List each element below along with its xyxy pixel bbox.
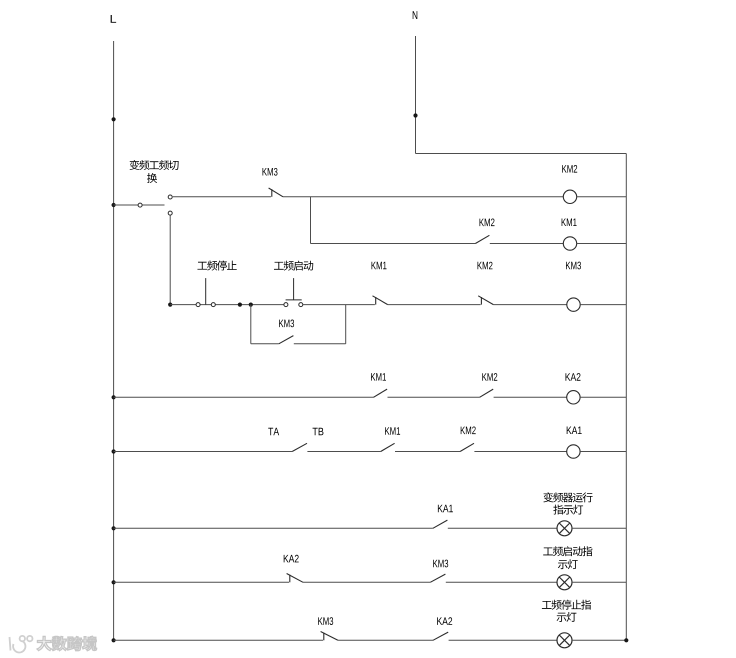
watermark 大数跨境: [37, 636, 96, 650]
contact KA2 NO (rung8): [433, 632, 448, 640]
contact KA2 NC (rung7): [287, 574, 303, 583]
coil KA2: [567, 391, 580, 404]
contact KM3 NC (rung8): [321, 632, 338, 641]
junction L bus to selector: [112, 203, 116, 207]
selector SA pivot: [138, 203, 142, 207]
label N: [413, 11, 418, 19]
wire: rung4 seg b: [388, 396, 480, 398]
wire: rung8 seg d: [572, 639, 626, 641]
wire: rung5 seg d: [474, 451, 566, 453]
contact TA-TB NO (rung5): [292, 443, 307, 451]
junction L bus rung4: [112, 395, 116, 399]
contact KM3 NO (self-hold): [279, 336, 294, 344]
wire: rung2 seg c: [577, 243, 627, 245]
label KA2 (rung7): [284, 555, 299, 563]
label TB: [313, 428, 324, 435]
wire: rung1 seg a: [173, 196, 271, 198]
wire: rung5 seg a: [114, 451, 293, 453]
label KM1 (rung3): [371, 262, 386, 269]
label KA2 (rung8): [437, 617, 452, 625]
wire: rung8 seg a: [114, 639, 323, 641]
label KM2 (rung5): [461, 426, 476, 434]
wire: self-hold seg b: [294, 343, 346, 345]
wire: rung4 seg c: [494, 396, 567, 398]
pushbutton SB2 terminal right: [299, 303, 303, 307]
wire: selector common + blade: [114, 204, 165, 206]
label KM2 (rung3): [477, 262, 492, 270]
wire: rung6 seg b: [448, 527, 557, 529]
label KM2 (rung4): [482, 373, 497, 381]
wire: rung1-rung2 branch: [310, 197, 312, 244]
wire: rung7 seg a: [114, 581, 289, 583]
contact KM3 NO (rung7): [430, 574, 445, 582]
junction on L bus: [112, 117, 116, 121]
pushbutton SB2 工频启动 (NO) actuator: [286, 278, 302, 300]
wire: rung3 seg d: [493, 304, 566, 306]
wire: N bus (right): [625, 154, 627, 641]
coil KM1: [563, 237, 576, 250]
wire: L bus: [113, 41, 115, 640]
label KM3 (rung1): [262, 168, 277, 176]
junction rung3 left: [168, 303, 172, 307]
wire: self-hold branch down: [250, 305, 252, 344]
label 指示灯 (rung6): [553, 505, 583, 515]
wire: rung1 seg c: [577, 196, 627, 198]
contact KM3 NC (rung1): [269, 188, 283, 197]
wire: rung5 seg c: [395, 451, 460, 453]
junction on N drop: [413, 113, 417, 117]
label KA1 (rung6): [438, 505, 453, 512]
junction L bus rung5: [112, 449, 116, 453]
lamp HL2 工频启动指示灯: [557, 575, 572, 590]
label TA: [268, 428, 279, 435]
coil KM2: [563, 190, 576, 203]
pushbutton SB1 工频停止 (NC) actuator: [205, 278, 207, 305]
wire: rung8 seg c: [449, 639, 557, 641]
label KM1 (rung5): [385, 427, 400, 434]
wire: rung3 seg c: [388, 304, 481, 306]
wire: rung4 seg d: [580, 396, 626, 398]
wire: rung3 seg b: [303, 304, 375, 306]
wire: rung8 seg b: [338, 639, 433, 641]
label KM2 (rung2): [479, 218, 494, 226]
wire: rung2 seg a: [311, 243, 476, 245]
contact KM1 NO (rung5): [381, 443, 395, 451]
selector SA throw 2 (down): [168, 211, 172, 215]
label KA1 coil: [567, 427, 582, 434]
label 示灯 (rung8): [557, 612, 577, 622]
wire: self-hold seg a: [251, 343, 279, 345]
wire: rung3 seg a: [170, 304, 286, 306]
pushbutton SB2 terminal left: [284, 303, 288, 307]
label KM1 (rung4): [371, 373, 386, 380]
label 变频工频切换 line1: [130, 160, 179, 170]
selector SA throw 1 (up): [168, 195, 172, 199]
label KM3 (rung7): [433, 560, 448, 568]
contact KM2 NC (rung3): [478, 296, 493, 305]
wire: rung6 seg c: [572, 527, 626, 529]
label L: [111, 15, 117, 23]
contact KM2 NO (rung4): [480, 389, 494, 397]
label 工频启动: [274, 261, 313, 271]
pushbutton SB1 terminal left: [196, 303, 200, 307]
watermark logo: [10, 636, 33, 653]
contact KM2 NO (rung5): [460, 443, 474, 451]
label KA2 coil: [566, 373, 581, 381]
label KM3 (rung8): [318, 617, 333, 625]
wire: N drop: [415, 36, 417, 154]
coil KA1: [567, 445, 580, 458]
junction rung3 a: [238, 303, 242, 307]
lamp HL1 变频器运行指示灯: [557, 521, 572, 536]
label KM2 coil: [562, 165, 577, 173]
junction L bus rung7: [112, 580, 116, 584]
wire: rung1 seg b: [283, 196, 563, 198]
wire: rung4 seg a: [114, 396, 374, 398]
label 变频工频切换 line2: [147, 173, 157, 183]
contact KA1 NO (rung6): [433, 520, 448, 528]
wire: rung3 seg e: [580, 304, 626, 306]
junction right bus bottom: [624, 638, 628, 642]
wire: self-hold branch up: [345, 305, 347, 344]
label KM3 (self-hold): [279, 320, 294, 328]
junction L bus rung6: [112, 526, 116, 530]
label 工频停止: [197, 260, 236, 270]
wire: rung7 seg d: [572, 581, 626, 583]
lamp HL3 工频停止指示灯: [557, 633, 572, 648]
contact KM1 NC (rung3): [373, 296, 388, 305]
label 工频停止指: [542, 600, 591, 610]
coil KM3: [567, 298, 580, 311]
contact KM2 NO (rung2): [475, 235, 489, 243]
label 工频启动指: [543, 546, 592, 556]
wire: rung7 seg c: [446, 581, 557, 583]
wire: rung2 seg b: [490, 243, 564, 245]
wire: rung6 seg a: [114, 527, 433, 529]
junction L bus rung8: [112, 638, 116, 642]
wire: rung5 seg e: [580, 451, 626, 453]
junction rung3 b (self-hold tap): [249, 303, 253, 307]
label KM3 coil: [566, 262, 581, 270]
label KM1 coil: [562, 219, 577, 226]
wire: selector throw2 drop: [169, 216, 171, 305]
wire: rung7 seg b: [303, 581, 430, 583]
pushbutton SB1 terminal right: [211, 303, 215, 307]
wire: N feeder horizontal: [416, 153, 627, 155]
contact KM1 NO (rung4): [374, 389, 388, 397]
label 变频器运行: [543, 492, 592, 502]
label 示灯 (rung7): [558, 559, 578, 569]
wire: rung5 seg b: [307, 451, 380, 453]
